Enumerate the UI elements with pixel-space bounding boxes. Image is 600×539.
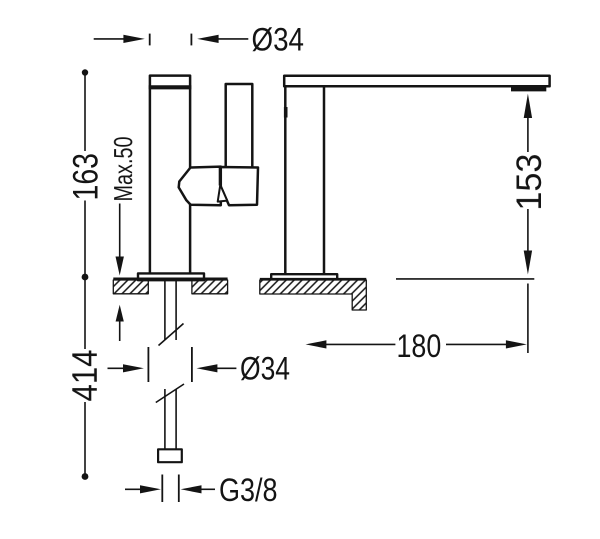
dot deck: [82, 274, 89, 281]
dot bottom: [82, 473, 89, 480]
153 extension below: [527, 284, 529, 354]
column right edge: [323, 86, 326, 274]
handle rod: [226, 84, 253, 167]
spout bar (right view): [284, 76, 549, 87]
svg-text:Ø34: Ø34: [240, 351, 290, 387]
G3/8 nut: [158, 449, 182, 462]
pipe break slash lower: [156, 384, 184, 403]
deck reference line right: [396, 278, 534, 280]
top dim tick right: [190, 34, 192, 46]
svg-text:Ø34: Ø34: [252, 22, 305, 58]
column left tick: [284, 107, 288, 118]
lever grip pentagon: [179, 167, 221, 206]
deck surface line (right): [260, 278, 367, 280]
deck hatch L-block: [260, 280, 367, 310]
deck surface line (left): [113, 278, 227, 280]
column left edge: [284, 86, 287, 274]
spout outlet band: [511, 87, 546, 91]
svg-text:G3/8: G3/8: [219, 472, 278, 508]
supply pipe upper: [164, 281, 166, 341]
dot top: [82, 69, 88, 75]
body top seam: [149, 85, 192, 89]
G3/8 dim: [161, 475, 163, 503]
base flange (left): [138, 273, 204, 280]
top dim tick left: [149, 34, 151, 46]
top dim arrows: [94, 38, 125, 40]
dim 153 vertical: [524, 94, 532, 118]
pipe break slash upper: [159, 324, 184, 346]
svg-text:Max.50: Max.50: [108, 137, 138, 202]
dim 180 horizontal: [306, 340, 327, 348]
faucet body (left view): [150, 76, 190, 273]
Max.50 dim line: [119, 204, 121, 259]
svg-text:153: 153: [510, 154, 549, 211]
svg-text:180: 180: [397, 328, 442, 364]
svg-text:163: 163: [67, 153, 106, 201]
deck hatch right block: [192, 280, 228, 294]
mid dia34 dim: [147, 347, 149, 382]
handle base quad: [220, 167, 258, 205]
supply pipe lower: [164, 389, 166, 449]
base flange (right): [271, 274, 337, 279]
deck hatch left block: [113, 280, 148, 294]
handle notch triangle: [218, 185, 228, 202]
handle gap bold line: [219, 167, 222, 186]
svg-text:414: 414: [66, 350, 105, 402]
dim 163/414 vertical line: [84, 73, 86, 152]
